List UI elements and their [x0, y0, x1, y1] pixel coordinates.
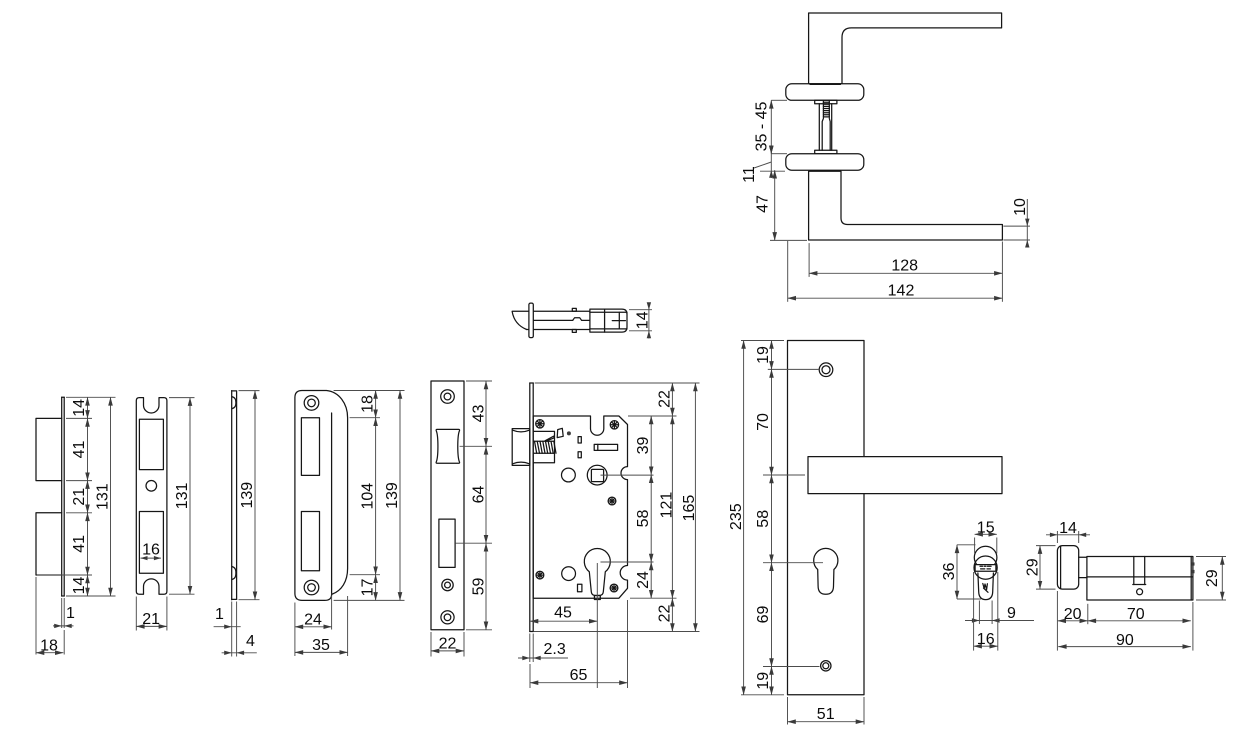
spindle with spring between roses	[815, 100, 837, 103]
svg-text:19: 19	[755, 672, 772, 690]
dimension 69 I	[771, 563, 773, 667]
svg-text:59: 59	[470, 578, 487, 596]
thumbturn grip bar	[975, 565, 996, 572]
svg-text:16: 16	[142, 542, 160, 559]
lock body outline	[533, 416, 627, 598]
dimension 70 K	[1088, 620, 1191, 622]
screw hole B	[146, 481, 157, 492]
svg-text:41: 41	[71, 441, 88, 459]
svg-text:24: 24	[304, 612, 322, 629]
dimension 18 (box depth)	[35, 577, 37, 655]
dimension 35 - 45 H	[771, 99, 787, 101]
dimension 4 C	[236, 602, 238, 657]
svg-text:19: 19	[755, 346, 772, 364]
strike plate with curved lip	[295, 391, 348, 601]
tick lines I	[741, 340, 784, 342]
svg-text:20: 20	[1064, 606, 1082, 623]
screw hole I bottom	[821, 661, 831, 671]
svg-text:58: 58	[635, 510, 652, 528]
svg-text:45: 45	[554, 604, 572, 621]
dimension chain 14/41/21/41/14	[87, 397, 89, 418]
dimension 19 I top	[771, 341, 773, 370]
follower with square spindle hole	[587, 465, 607, 485]
strike box side view	[61, 397, 63, 596]
dimension 19 I bottom	[771, 667, 773, 695]
dimension 16 J	[973, 572, 975, 651]
spindle square block	[590, 309, 605, 332]
svg-text:29: 29	[1204, 569, 1221, 587]
dimension 29 K left	[1036, 545, 1056, 547]
svg-text:65: 65	[570, 667, 588, 684]
strike plate front view	[136, 398, 167, 595]
svg-text:21: 21	[71, 488, 88, 506]
spindle end block with cross	[605, 309, 627, 332]
guide circle F upper	[562, 468, 576, 482]
screw hole E top	[441, 390, 455, 404]
adjuster slot	[594, 444, 617, 450]
upper lever handle	[809, 13, 1002, 84]
dimension 22 E	[430, 632, 432, 657]
svg-text:165: 165	[681, 495, 698, 522]
svg-text:14: 14	[1059, 520, 1077, 537]
svg-text:139: 139	[384, 482, 401, 509]
latch spring housing	[533, 431, 554, 462]
thumbturn knob circle	[974, 546, 997, 569]
svg-text:39: 39	[635, 437, 652, 455]
latch shaft	[533, 310, 590, 312]
dimension 139 C	[239, 390, 260, 392]
dimension 29 K right	[1196, 556, 1226, 558]
euro cylinder cutout F	[584, 549, 610, 596]
cylinder plug bold ring	[974, 556, 997, 579]
dimension 1 (plate thickness)	[61, 598, 63, 628]
svg-text:18: 18	[40, 637, 58, 654]
dimension 10 H	[1003, 225, 1030, 227]
svg-text:142: 142	[888, 283, 915, 300]
end cap K	[1190, 557, 1192, 601]
svg-text:15: 15	[977, 519, 995, 536]
svg-text:104: 104	[360, 483, 377, 510]
svg-text:1: 1	[215, 606, 224, 623]
keyway tail end view	[978, 573, 994, 600]
dimension 47 H	[760, 170, 785, 172]
svg-text:14: 14	[71, 577, 88, 595]
latch hole E	[436, 429, 459, 463]
top countersink bump	[232, 397, 236, 409]
backplate front view	[788, 341, 865, 695]
svg-text:16: 16	[977, 631, 995, 648]
screw hole D bottom	[304, 580, 319, 595]
dimension 14 G	[629, 309, 652, 311]
bottom countersink bump	[232, 567, 236, 580]
svg-text:41: 41	[71, 535, 88, 553]
spring catch flag	[557, 428, 563, 437]
svg-text:21: 21	[142, 611, 160, 628]
svg-text:29: 29	[1024, 558, 1041, 576]
screw holes E bottom	[442, 579, 453, 590]
svg-text:69: 69	[755, 606, 772, 624]
dimension 15 J	[974, 538, 976, 554]
dust box upper	[36, 418, 62, 480]
screw hole I top	[819, 363, 833, 377]
svg-text:1: 1	[66, 605, 75, 622]
cam K	[1133, 557, 1135, 585]
dimension 18 D	[375, 391, 377, 418]
logo mark J	[983, 584, 988, 593]
case screws F	[536, 420, 544, 428]
dimension 51 I	[787, 697, 789, 725]
dimension 22 F bottom	[671, 598, 673, 631]
svg-text:51: 51	[817, 706, 835, 723]
dimension 21 B	[135, 597, 137, 631]
dimension 45 F	[596, 563, 598, 688]
dimension 104 D	[375, 418, 377, 575]
svg-text:43: 43	[470, 405, 487, 423]
dimension 64 E	[485, 446, 487, 543]
latch bolt assembly section	[512, 310, 529, 312]
bolt cutout B	[139, 512, 163, 574]
svg-text:4: 4	[246, 633, 255, 650]
spindle flange plate	[529, 303, 533, 338]
dimension 9 J	[978, 601, 980, 625]
dimension 90 K	[1056, 591, 1058, 651]
svg-text:18: 18	[360, 395, 377, 413]
lip fold line	[331, 413, 333, 593]
svg-text:10: 10	[1012, 198, 1029, 216]
thumbturn knob side view	[1057, 546, 1078, 590]
dimension 58 F	[650, 475, 652, 562]
latch cutout B	[139, 419, 163, 469]
dimension 24 F	[650, 562, 652, 598]
svg-text:2.3: 2.3	[544, 641, 566, 658]
dust box lower	[36, 513, 62, 575]
dimension 43 E	[485, 381, 487, 446]
svg-text:70: 70	[1127, 606, 1145, 623]
tick lines E	[460, 445, 492, 447]
dimension 58 I	[771, 475, 773, 563]
dimension 139 D	[399, 391, 401, 601]
dimension 121 F	[671, 416, 673, 598]
svg-text:22: 22	[656, 605, 673, 623]
bolt cutout D	[301, 512, 319, 571]
lock faceplate front view	[431, 381, 464, 630]
svg-text:24: 24	[635, 571, 652, 589]
euro cylinder hole I	[814, 548, 838, 594]
svg-text:14: 14	[71, 399, 88, 417]
guide circle F lower	[562, 567, 576, 581]
small stud 3	[578, 584, 582, 591]
svg-text:17: 17	[360, 579, 377, 597]
svg-text:121: 121	[659, 492, 676, 519]
svg-text:139: 139	[239, 482, 256, 509]
dimension 17 D	[375, 575, 377, 601]
lower rose	[786, 154, 864, 171]
dimension 35 D	[347, 596, 349, 656]
mortise lock faceplate edge	[529, 383, 531, 632]
latch bolt head F	[512, 429, 530, 466]
dimension 59 E	[485, 543, 487, 630]
extension lines A	[66, 396, 116, 398]
svg-text:131: 131	[174, 482, 191, 509]
screw hole D top	[304, 396, 319, 411]
dimension 235 I	[743, 341, 745, 695]
bolt hole E	[439, 519, 455, 567]
latch cutout D	[301, 418, 319, 476]
tick lines F	[601, 474, 654, 476]
svg-text:128: 128	[891, 257, 918, 274]
svg-text:22: 22	[439, 636, 457, 653]
svg-text:35 - 45: 35 - 45	[754, 101, 771, 151]
small stud 1	[578, 437, 581, 443]
dimension 131 B	[169, 397, 195, 399]
svg-text:22: 22	[656, 390, 673, 408]
svg-text:35: 35	[312, 637, 330, 654]
dimension 70 I	[771, 369, 773, 475]
dimension 65 F	[529, 664, 531, 688]
svg-text:14: 14	[635, 311, 652, 329]
dimension 11 H	[770, 146, 772, 178]
dimension 128 H	[808, 243, 810, 277]
svg-text:11: 11	[741, 166, 758, 183]
dimension 39 F	[650, 416, 652, 475]
dimension 165 F	[694, 383, 696, 632]
pin hole K	[1137, 589, 1143, 595]
svg-text:131: 131	[95, 483, 112, 510]
svg-text:47: 47	[755, 195, 772, 213]
dimension 22 F top	[671, 383, 673, 416]
lever bar on backplate	[808, 457, 1002, 494]
dimension 1 C	[231, 602, 233, 657]
pin dot	[567, 431, 571, 435]
svg-text:9: 9	[1007, 605, 1016, 622]
cylinder neck	[1079, 556, 1087, 558]
extension lines D right	[334, 390, 405, 392]
thin strike plate side view	[231, 391, 233, 600]
dimension 36 J	[957, 544, 976, 546]
svg-text:64: 64	[470, 486, 487, 504]
svg-text:70: 70	[755, 413, 772, 431]
small stud 2	[578, 452, 581, 458]
dimension 142 H	[787, 241, 789, 302]
latch spring	[534, 440, 554, 442]
dimension 20 K	[1087, 604, 1089, 624]
dimension 2.3 F	[529, 634, 531, 663]
svg-text:235: 235	[728, 503, 745, 530]
cylinder body	[1087, 557, 1193, 601]
svg-text:90: 90	[1116, 632, 1134, 649]
dimension 14 K	[1056, 531, 1058, 543]
upper rose	[786, 84, 864, 101]
dimension 24 D	[294, 603, 296, 657]
svg-text:58: 58	[755, 510, 772, 528]
lower lever handle	[809, 171, 1003, 240]
svg-text:36: 36	[941, 563, 958, 581]
dimension 131	[110, 397, 112, 596]
